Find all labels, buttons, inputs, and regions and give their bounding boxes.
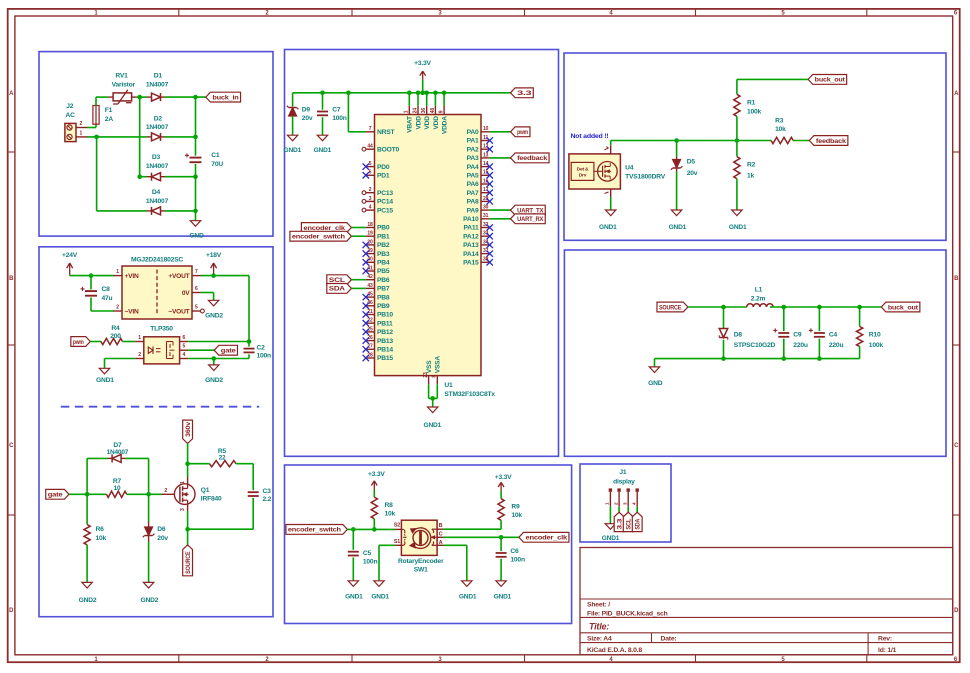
svg-text:PA4: PA4 bbox=[467, 164, 479, 171]
svg-text:feedback: feedback bbox=[517, 155, 548, 162]
svg-text:GND1: GND1 bbox=[424, 422, 442, 429]
svg-text:GND1: GND1 bbox=[371, 594, 389, 601]
svg-text:PC15: PC15 bbox=[377, 207, 393, 214]
svg-text:+3.3V: +3.3V bbox=[368, 471, 385, 478]
svg-text:6: 6 bbox=[183, 335, 186, 341]
svg-text:100n: 100n bbox=[257, 353, 272, 360]
svg-text:R3: R3 bbox=[775, 117, 784, 124]
svg-text:PC13: PC13 bbox=[377, 190, 393, 197]
svg-text:Date:: Date: bbox=[661, 636, 677, 643]
svg-text:5: 5 bbox=[183, 344, 186, 350]
svg-text:D4: D4 bbox=[152, 189, 161, 196]
svg-text:C9: C9 bbox=[793, 331, 802, 338]
svg-text:19: 19 bbox=[367, 231, 373, 237]
svg-text:100k: 100k bbox=[869, 342, 884, 349]
svg-text:R8: R8 bbox=[385, 502, 394, 509]
svg-text:Det &: Det & bbox=[577, 166, 589, 172]
svg-text:+24V: +24V bbox=[62, 252, 78, 259]
svg-text:PA6: PA6 bbox=[467, 181, 479, 188]
svg-text:30: 30 bbox=[483, 205, 489, 211]
svg-text:PA2: PA2 bbox=[467, 146, 479, 153]
svg-text:J1: J1 bbox=[619, 469, 627, 476]
svg-text:AC: AC bbox=[66, 112, 76, 119]
svg-text:44: 44 bbox=[367, 144, 373, 150]
svg-text:PB11: PB11 bbox=[377, 320, 393, 327]
svg-text:GND1: GND1 bbox=[729, 224, 747, 231]
svg-text:C5: C5 bbox=[363, 550, 372, 557]
svg-text:70U: 70U bbox=[211, 161, 223, 168]
svg-text:1: 1 bbox=[180, 481, 186, 484]
svg-text:2: 2 bbox=[80, 121, 83, 127]
svg-text:BOOT0: BOOT0 bbox=[377, 146, 400, 153]
svg-text:VDD: VDD bbox=[415, 116, 422, 130]
svg-text:PB8: PB8 bbox=[377, 294, 390, 301]
svg-text:PA7: PA7 bbox=[467, 190, 479, 197]
svg-text:display: display bbox=[613, 479, 635, 486]
svg-text:4: 4 bbox=[183, 352, 186, 358]
svg-text:GND: GND bbox=[189, 233, 204, 240]
svg-text:PB12: PB12 bbox=[377, 329, 393, 336]
svg-text:GND1: GND1 bbox=[669, 224, 687, 231]
svg-text:MGJ2D241802SC: MGJ2D241802SC bbox=[131, 257, 183, 264]
svg-text:buck_in: buck_in bbox=[212, 94, 238, 101]
svg-text:1k: 1k bbox=[747, 172, 755, 179]
svg-text:D1: D1 bbox=[154, 72, 163, 79]
svg-text:GND2: GND2 bbox=[205, 312, 223, 319]
svg-text:GND1: GND1 bbox=[345, 594, 363, 601]
svg-text:STM32F103C8Tx: STM32F103C8Tx bbox=[444, 391, 495, 398]
svg-text:C1: C1 bbox=[211, 152, 220, 159]
svg-text:10: 10 bbox=[114, 485, 121, 492]
svg-text:F1: F1 bbox=[105, 107, 113, 114]
svg-text:20v: 20v bbox=[687, 170, 698, 177]
svg-text:1: 1 bbox=[138, 335, 141, 341]
svg-text:D6: D6 bbox=[157, 526, 166, 533]
svg-text:PB15: PB15 bbox=[377, 355, 393, 362]
svg-text:10k: 10k bbox=[511, 512, 522, 519]
svg-text:42: 42 bbox=[367, 274, 373, 280]
svg-text:SCL: SCL bbox=[626, 519, 633, 530]
svg-text:C: C bbox=[439, 531, 443, 537]
svg-text:SOURCE: SOURCE bbox=[659, 304, 682, 311]
svg-text:20v: 20v bbox=[302, 115, 313, 122]
svg-text:S1: S1 bbox=[394, 539, 400, 545]
svg-text:SDA: SDA bbox=[329, 286, 346, 293]
svg-text:13: 13 bbox=[483, 152, 489, 158]
svg-text:UART_RX: UART_RX bbox=[517, 216, 544, 223]
svg-text:PB13: PB13 bbox=[377, 338, 393, 345]
svg-text:3: 3 bbox=[180, 508, 186, 511]
svg-text:PB10: PB10 bbox=[377, 312, 393, 319]
svg-text:3.3: 3.3 bbox=[517, 90, 532, 97]
svg-text:GND1: GND1 bbox=[284, 147, 302, 154]
svg-text:3.3: 3.3 bbox=[616, 518, 623, 530]
svg-text:VBAT: VBAT bbox=[407, 116, 414, 133]
svg-text:D2: D2 bbox=[154, 115, 163, 122]
svg-text:IRF840: IRF840 bbox=[201, 496, 222, 503]
svg-text:PB7: PB7 bbox=[377, 286, 390, 293]
svg-text:100n: 100n bbox=[510, 557, 525, 564]
svg-text:gate: gate bbox=[48, 492, 63, 499]
svg-text:NRST: NRST bbox=[377, 129, 396, 136]
svg-text:1N4007: 1N4007 bbox=[146, 198, 169, 205]
svg-text:5: 5 bbox=[195, 305, 198, 311]
svg-text:+18V: +18V bbox=[206, 252, 222, 259]
svg-text:PD0: PD0 bbox=[377, 164, 390, 171]
svg-text:+3.3V: +3.3V bbox=[414, 60, 431, 67]
svg-text:D7: D7 bbox=[113, 442, 122, 449]
svg-text:C7: C7 bbox=[332, 106, 341, 113]
svg-text:RV1: RV1 bbox=[115, 72, 128, 79]
svg-text:1N4007: 1N4007 bbox=[146, 82, 169, 89]
svg-text:STPSC10G2D: STPSC10G2D bbox=[734, 342, 776, 349]
svg-text:PD1: PD1 bbox=[377, 173, 390, 180]
svg-text:220u: 220u bbox=[829, 342, 844, 349]
svg-text:GND1: GND1 bbox=[599, 224, 617, 231]
svg-text:200: 200 bbox=[110, 333, 121, 340]
svg-text:L1: L1 bbox=[755, 287, 763, 294]
svg-text:VDD: VDD bbox=[424, 116, 431, 130]
svg-text:2: 2 bbox=[138, 352, 141, 358]
svg-text:PA1: PA1 bbox=[467, 138, 479, 145]
svg-text:R10: R10 bbox=[869, 331, 881, 338]
svg-text:PA8: PA8 bbox=[467, 199, 479, 206]
svg-text:PB6: PB6 bbox=[377, 277, 390, 284]
svg-text:R6: R6 bbox=[96, 526, 105, 533]
svg-text:encoder_clk: encoder_clk bbox=[526, 535, 568, 542]
svg-text:PA11: PA11 bbox=[463, 225, 479, 232]
svg-text:10: 10 bbox=[483, 126, 489, 132]
svg-text:PA13: PA13 bbox=[463, 242, 479, 249]
svg-text:43: 43 bbox=[367, 283, 373, 289]
svg-text:S2: S2 bbox=[394, 523, 400, 529]
svg-text:Varistor: Varistor bbox=[112, 82, 136, 89]
svg-text:R4: R4 bbox=[111, 325, 120, 332]
svg-text:J2: J2 bbox=[66, 103, 74, 110]
svg-text:9: 9 bbox=[439, 110, 445, 113]
svg-text:18: 18 bbox=[367, 222, 373, 228]
svg-text:2: 2 bbox=[165, 488, 168, 494]
svg-text:GND1: GND1 bbox=[96, 377, 114, 384]
svg-text:C2: C2 bbox=[257, 344, 266, 351]
svg-text:PB1: PB1 bbox=[377, 233, 390, 240]
svg-text:A: A bbox=[439, 540, 443, 546]
svg-text:PA10: PA10 bbox=[463, 216, 479, 223]
svg-text:VSS: VSS bbox=[426, 360, 433, 373]
svg-text:pwm: pwm bbox=[517, 129, 528, 136]
svg-text:C4: C4 bbox=[829, 331, 838, 338]
svg-text:+VIN: +VIN bbox=[125, 273, 139, 280]
svg-text:Rev:: Rev: bbox=[878, 636, 892, 643]
svg-text:Drv: Drv bbox=[579, 173, 587, 179]
svg-text:PA5: PA5 bbox=[467, 173, 479, 180]
svg-text:48: 48 bbox=[430, 108, 436, 114]
svg-text:GND: GND bbox=[648, 380, 663, 387]
svg-text:7: 7 bbox=[195, 269, 198, 275]
svg-text:0V: 0V bbox=[182, 290, 190, 297]
svg-text:22: 22 bbox=[219, 454, 226, 461]
svg-text:D5: D5 bbox=[687, 158, 696, 165]
svg-text:Q1: Q1 bbox=[201, 487, 210, 494]
svg-text:Not added !!: Not added !! bbox=[571, 133, 609, 140]
svg-text:PB2: PB2 bbox=[377, 242, 390, 249]
svg-text:buck_out: buck_out bbox=[815, 77, 846, 84]
svg-text:PB14: PB14 bbox=[377, 347, 393, 354]
svg-text:47u: 47u bbox=[102, 295, 113, 302]
svg-text:Size: A4: Size: A4 bbox=[587, 636, 612, 643]
svg-text:PB9: PB9 bbox=[377, 303, 390, 310]
svg-text:2.2: 2.2 bbox=[263, 496, 272, 503]
svg-text:1N4007: 1N4007 bbox=[146, 163, 169, 170]
svg-text:B: B bbox=[439, 523, 443, 529]
svg-text:6: 6 bbox=[195, 286, 198, 292]
svg-text:R1: R1 bbox=[747, 100, 756, 107]
svg-text:PB5: PB5 bbox=[377, 268, 390, 275]
svg-text:PA0: PA0 bbox=[467, 129, 479, 136]
svg-text:R2: R2 bbox=[747, 162, 756, 169]
svg-text:2: 2 bbox=[116, 305, 119, 311]
svg-text:10k: 10k bbox=[385, 511, 396, 518]
svg-text:GND1: GND1 bbox=[494, 594, 512, 601]
svg-text:220u: 220u bbox=[793, 342, 808, 349]
svg-text:VSSA: VSSA bbox=[435, 356, 442, 374]
svg-text:PB4: PB4 bbox=[377, 260, 390, 267]
svg-text:KiCad E.D.A. 8.0.8: KiCad E.D.A. 8.0.8 bbox=[587, 647, 642, 654]
svg-text:10k: 10k bbox=[775, 126, 786, 133]
svg-text:360v: 360v bbox=[185, 421, 192, 436]
svg-text:Sheet: /: Sheet: / bbox=[587, 601, 610, 608]
svg-text:PB3: PB3 bbox=[377, 251, 390, 258]
svg-text:RotaryEncoder: RotaryEncoder bbox=[398, 558, 444, 565]
svg-text:−VIN: −VIN bbox=[125, 309, 139, 316]
svg-text:24: 24 bbox=[412, 108, 418, 114]
svg-text:GND2: GND2 bbox=[79, 597, 97, 604]
svg-text:+VOUT: +VOUT bbox=[168, 273, 189, 280]
svg-text:1N4007: 1N4007 bbox=[146, 124, 169, 131]
svg-text:VDD: VDD bbox=[433, 116, 440, 130]
svg-text:PB0: PB0 bbox=[377, 225, 390, 232]
svg-text:PA14: PA14 bbox=[463, 251, 479, 258]
svg-text:1: 1 bbox=[116, 269, 119, 275]
svg-text:SW1: SW1 bbox=[414, 567, 428, 574]
svg-text:36: 36 bbox=[421, 108, 427, 114]
svg-text:1N4007: 1N4007 bbox=[107, 449, 129, 456]
svg-text:20v: 20v bbox=[157, 535, 168, 542]
svg-text:R9: R9 bbox=[511, 504, 520, 511]
svg-text:GND1: GND1 bbox=[459, 594, 477, 601]
svg-text:100n: 100n bbox=[363, 559, 378, 566]
svg-text:2.2m: 2.2m bbox=[751, 296, 766, 303]
svg-text:8: 8 bbox=[432, 375, 438, 378]
svg-text:GND1: GND1 bbox=[602, 535, 620, 542]
svg-text:PA15: PA15 bbox=[463, 260, 479, 267]
svg-text:pwm: pwm bbox=[73, 339, 84, 346]
svg-text:PC14: PC14 bbox=[377, 199, 393, 206]
svg-text:encoder_switch: encoder_switch bbox=[292, 234, 345, 241]
svg-text:C8: C8 bbox=[102, 286, 111, 293]
svg-text:3: 3 bbox=[369, 196, 372, 202]
svg-text:PA9: PA9 bbox=[467, 207, 479, 214]
svg-text:TLP350: TLP350 bbox=[150, 326, 173, 333]
svg-text:VDDA: VDDA bbox=[442, 116, 449, 134]
svg-text:U4: U4 bbox=[625, 164, 634, 171]
svg-text:TVS1800DRV: TVS1800DRV bbox=[625, 174, 666, 181]
svg-text:−VOUT: −VOUT bbox=[168, 309, 189, 316]
svg-text:7: 7 bbox=[369, 126, 372, 132]
svg-text:2A: 2A bbox=[105, 116, 114, 123]
svg-text:4: 4 bbox=[369, 205, 372, 211]
svg-text:PA12: PA12 bbox=[463, 233, 479, 240]
svg-text:100k: 100k bbox=[747, 108, 762, 115]
svg-text:GND2: GND2 bbox=[205, 377, 223, 384]
svg-text:SDA: SDA bbox=[635, 518, 642, 529]
svg-text:1: 1 bbox=[404, 110, 410, 113]
svg-text:10k: 10k bbox=[96, 535, 107, 542]
svg-text:31: 31 bbox=[483, 213, 489, 219]
svg-text:feedback: feedback bbox=[816, 138, 847, 145]
svg-text:U1: U1 bbox=[444, 382, 453, 389]
svg-text:+3.3V: +3.3V bbox=[495, 474, 512, 481]
svg-text:PA3: PA3 bbox=[467, 155, 479, 162]
svg-text:100n: 100n bbox=[332, 115, 347, 122]
svg-text:SOURCE: SOURCE bbox=[185, 551, 192, 574]
svg-text:Id: 1/1: Id: 1/1 bbox=[878, 647, 897, 654]
svg-text:GND2: GND2 bbox=[141, 597, 159, 604]
svg-text:2: 2 bbox=[369, 187, 372, 193]
svg-text:D8: D8 bbox=[734, 331, 743, 338]
svg-text:C3: C3 bbox=[263, 488, 272, 495]
svg-text:encoder_switch: encoder_switch bbox=[288, 527, 341, 534]
svg-text:File: PID_BUCK.kicad_sch: File: PID_BUCK.kicad_sch bbox=[587, 611, 668, 618]
svg-text:buck_out: buck_out bbox=[888, 304, 919, 311]
svg-text:GND1: GND1 bbox=[314, 147, 332, 154]
svg-text:1: 1 bbox=[80, 130, 83, 136]
svg-text:D9: D9 bbox=[302, 106, 311, 113]
svg-text:Title:: Title: bbox=[589, 622, 609, 632]
svg-text:D3: D3 bbox=[152, 154, 161, 161]
svg-text:gate: gate bbox=[221, 348, 236, 355]
svg-text:C6: C6 bbox=[510, 548, 519, 555]
